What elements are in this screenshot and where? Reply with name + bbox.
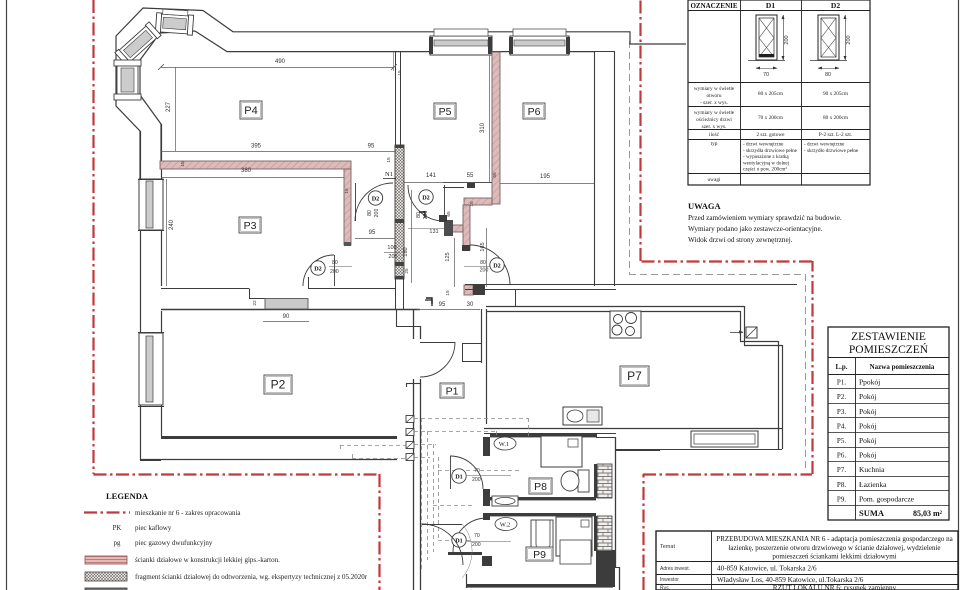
svg-text:22: 22 [252, 300, 258, 306]
room label P4 [240, 101, 262, 119]
svg-text:200: 200 [472, 542, 481, 548]
W2 label bubble [495, 518, 517, 531]
door symbol D2 [311, 261, 325, 275]
svg-text:LEGENDA: LEGENDA [106, 491, 149, 501]
svg-text:95: 95 [369, 230, 376, 236]
svg-text:80: 80 [416, 212, 422, 218]
dimension 195 [500, 183, 594, 185]
legend dark bar [85, 588, 127, 590]
door arc P3 lower (D2) [303, 255, 334, 286]
svg-text:90: 90 [283, 314, 290, 320]
door symbol D1 [452, 533, 466, 547]
svg-text:wymiary w świetle: wymiary w świetle [694, 110, 735, 116]
svg-text:P6.: P6. [837, 452, 846, 460]
door arc hall/P8 (D1) [450, 456, 483, 489]
room label P3 [239, 217, 261, 233]
sink P7 [563, 407, 602, 425]
wall stub x515 [515, 289, 517, 306]
svg-text:POMIESZCZEŃ: POMIESZCZEŃ [849, 342, 929, 356]
door arc P4/P3 (D2) [355, 183, 393, 221]
room label P2 [264, 375, 292, 394]
svg-text:65: 65 [446, 211, 452, 217]
bay outer wall [116, 8, 203, 179]
svg-text:490: 490 [275, 59, 286, 65]
svg-text:P9: P9 [533, 549, 546, 561]
svg-text:15: 15 [180, 161, 186, 167]
P8 bottom wall [490, 497, 596, 500]
svg-text:125: 125 [445, 252, 451, 261]
svg-text:D2: D2 [422, 194, 430, 201]
svg-text:195: 195 [540, 174, 551, 180]
wall fragment to rebuild (90) [265, 299, 308, 310]
svg-text:ścianki działowe w konstrukcji: ścianki działowe w konstrukcji lekkiej g… [135, 556, 280, 564]
svg-text:D2: D2 [372, 195, 380, 202]
svg-text:P9.: P9. [837, 495, 846, 503]
svg-text:P1: P1 [446, 385, 459, 397]
pink partition wall P3 vertical [344, 169, 351, 245]
door D1 diagram [756, 15, 777, 60]
svg-text:L.p.: L.p. [835, 363, 847, 371]
svg-text:SUMA: SUMA [859, 508, 885, 518]
svg-text:łazienkę, poszerzenie otworu d: łazienkę, poszerzenie otworu drzwiowego … [728, 544, 940, 552]
svg-text:25: 25 [404, 268, 409, 274]
P6 right wall [594, 51, 596, 286]
kitchen balcony sill [615, 449, 782, 451]
door symbol D2 [490, 258, 504, 272]
marker A lower [426, 298, 432, 304]
svg-text:200: 200 [480, 268, 489, 274]
P8 top wall [490, 434, 597, 437]
red dash-dot scope boundary [92, 0, 94, 474]
door D2 diagram [818, 15, 839, 60]
shower P8 [541, 436, 582, 467]
svg-text:P2.: P2. [837, 393, 846, 401]
dimension 141 55 [404, 182, 492, 184]
svg-text:200: 200 [784, 35, 790, 44]
svg-text:15: 15 [445, 290, 451, 296]
svg-text:180: 180 [403, 247, 409, 256]
window top P5 [430, 36, 492, 55]
svg-text:55: 55 [492, 172, 498, 178]
svg-text:70: 70 [474, 468, 480, 474]
dimension 227 vertical [175, 67, 177, 151]
svg-text:15: 15 [344, 188, 350, 194]
svg-text:15: 15 [397, 70, 403, 76]
door symbol D2 [368, 191, 382, 205]
pink partition wall P3/P4 horizontal [160, 161, 351, 169]
svg-text:Pokój: Pokój [859, 436, 877, 445]
svg-text:RZUT LOKALU NR 6; rysunek zami: RZUT LOKALU NR 6; rysunek zamienny [773, 584, 897, 590]
svg-text:Rys.: Rys. [660, 586, 670, 590]
pink partition wall P5/P6 vertical [492, 52, 500, 204]
svg-text:mieszkanie nr 6 - zakres oprac: mieszkanie nr 6 - zakres opracowania [135, 509, 241, 517]
pink jog wall T-cap (dark) [444, 220, 453, 236]
svg-text:wentylacyjną w dolnej: wentylacyjną w dolnej [743, 160, 789, 166]
svg-text:pomieszczeń ściankami lekkimi: pomieszczeń ściankami lekkimi działowymi [772, 553, 896, 561]
P9 bottom wall [466, 584, 613, 588]
dimension 95 (door P3) [355, 238, 395, 240]
svg-text:40-859 Katowice, ul. Tokarska: 40-859 Katowice, ul. Tokarska 2/6 [717, 565, 817, 573]
svg-text:P6: P6 [528, 106, 541, 118]
svg-text:Pokój: Pokój [859, 392, 877, 401]
dimension 490 [161, 67, 394, 69]
svg-text:Pokój: Pokój [859, 451, 877, 460]
svg-text:Nazwa pomieszczenia: Nazwa pomieszczenia [870, 363, 935, 371]
vent square with arrow P7 [746, 327, 757, 338]
svg-text:Kuchnia: Kuchnia [859, 465, 885, 474]
dimension 95 30 hall [417, 309, 480, 311]
door arc P2/P1 [420, 342, 455, 377]
svg-text:70: 70 [474, 533, 480, 539]
rooms table ZESTAWIENIE [828, 327, 949, 520]
bay window diagonal [115, 22, 161, 66]
svg-text:30: 30 [467, 302, 474, 308]
svg-text:80 x 205cm: 80 x 205cm [758, 91, 784, 97]
svg-text:80: 80 [825, 72, 831, 78]
pink jog wall small band [445, 225, 463, 232]
svg-text:200: 200 [472, 477, 481, 483]
svg-text:90 x 205cm: 90 x 205cm [823, 91, 849, 97]
svg-text:otworu: otworu [706, 93, 721, 99]
svg-text:Przed zamówieniem wymiary spra: Przed zamówieniem wymiary sprawdzić na b… [688, 214, 842, 222]
wall between P4 and P5 [395, 51, 397, 145]
svg-text:W.2: W.2 [500, 522, 510, 529]
svg-text:15: 15 [469, 201, 475, 207]
bay inner wall [140, 31, 195, 161]
svg-text:Ppokój: Ppokój [859, 378, 880, 387]
toilet P8 [578, 470, 589, 492]
door symbol D2 [419, 190, 433, 204]
door arc corridor/P5 (D2) [408, 185, 444, 221]
P9 left wall [483, 513, 490, 520]
svg-text:Łazienka: Łazienka [859, 480, 887, 489]
kitchen bottom wall [484, 428, 782, 430]
dimension 380 [161, 177, 344, 179]
room label P5 [434, 103, 456, 119]
wall P3/P2 lower line [161, 309, 420, 311]
svg-text:100: 100 [387, 245, 396, 251]
svg-text:wymiary w świetle: wymiary w świetle [694, 86, 735, 92]
brick pier P9 [597, 516, 612, 551]
window P2 left wall [139, 333, 163, 405]
svg-text:- skrzydło drzwiowe pełne: - skrzydło drzwiowe pełne [804, 148, 859, 154]
svg-text:D1: D1 [455, 473, 463, 480]
svg-text:piec kaflowy: piec kaflowy [135, 524, 172, 532]
page right border [958, 0, 960, 590]
svg-text:205: 205 [388, 254, 397, 260]
pink niche piece near P1 [464, 285, 473, 295]
svg-text:227: 227 [166, 101, 172, 112]
door leaf cap corridor [439, 215, 447, 222]
svg-text:200: 200 [846, 35, 852, 44]
svg-text:131: 131 [429, 229, 438, 235]
dimension 165 vertical [486, 228, 488, 287]
svg-text:PRZEBUDOWA MIESZKANIA NR 6 - a: PRZEBUDOWA MIESZKANIA NR 6 - adaptacja p… [716, 535, 953, 543]
door arc corridor/P6 (D2) [470, 245, 510, 285]
svg-text:typ: typ [711, 141, 718, 147]
dimension 240 vertical [166, 179, 168, 286]
small bench P9 [560, 540, 591, 564]
svg-text:95: 95 [368, 144, 375, 150]
legend pink bar [85, 556, 127, 564]
legend red line sample [84, 511, 130, 513]
kitchen top wall [486, 306, 744, 308]
svg-text:P1.: P1. [837, 379, 846, 387]
svg-text:95: 95 [439, 302, 446, 308]
dimension 180 vertical [411, 190, 413, 283]
marker A corridor [419, 212, 425, 218]
svg-text:80: 80 [367, 210, 373, 216]
P9 top wall [490, 513, 596, 516]
window P3 left wall [139, 179, 163, 230]
svg-text:fragment ścianki działowej do: fragment ścianki działowej do odtworzeni… [135, 573, 368, 581]
svg-text:D2: D2 [314, 265, 322, 272]
svg-text:pg: pg [114, 540, 121, 547]
black cap pink horizontal end [467, 182, 475, 188]
dimension 131 [408, 228, 444, 230]
room label P1 [440, 383, 464, 398]
door schedule table [688, 0, 870, 185]
svg-text:ilość: ilość [709, 132, 720, 138]
kitchen radiator/window [691, 431, 758, 447]
svg-text:P3: P3 [244, 220, 257, 232]
basin P9 [531, 520, 553, 558]
svg-text:70: 70 [763, 72, 769, 78]
svg-text:P5.: P5. [837, 437, 846, 445]
room label P8 [529, 478, 552, 494]
svg-text:55: 55 [467, 173, 474, 179]
dimension 395 / 95 [161, 151, 396, 153]
svg-text:Temat: Temat [660, 544, 675, 550]
pink jog wall vertical [463, 205, 470, 250]
door arc hall entry [422, 524, 463, 565]
wall below P5 P6 [465, 284, 797, 286]
neighbour walls dashed [629, 41, 631, 274]
svg-text:- skrzydła drzwiowe pełne: - skrzydła drzwiowe pełne [743, 148, 798, 154]
P5 bottom wall [443, 182, 492, 184]
svg-text:P-2 szt. L-2 szt.: P-2 szt. L-2 szt. [819, 132, 852, 138]
svg-text:Widok drzwi od strony zewnętrz: Widok drzwi od strony zewnętrznej. [688, 236, 793, 244]
svg-text:- wyposażone z kratką: - wyposażone z kratką [743, 154, 789, 160]
pink jog wall horizontal [464, 198, 492, 205]
svg-text:P8.: P8. [837, 481, 846, 489]
P2 right wall / hall left wall [413, 309, 415, 339]
svg-text:ZESTAWIENIE: ZESTAWIENIE [851, 331, 926, 343]
svg-text:2 szt. gotowe: 2 szt. gotowe [756, 132, 785, 138]
room label P9 [526, 547, 553, 561]
riser squares [406, 416, 414, 423]
P8 washbasin niche [492, 496, 518, 506]
legend hatch bar [85, 572, 127, 581]
svg-text:240: 240 [169, 219, 175, 230]
svg-text:P4.: P4. [837, 422, 846, 430]
svg-text:części o pow. 200cm²: części o pow. 200cm² [743, 167, 787, 173]
room label P6 [523, 103, 545, 119]
svg-text:Pom. gospodarcze: Pom. gospodarcze [859, 494, 915, 503]
svg-text:- drzwi wewnętrzne: - drzwi wewnętrzne [743, 142, 784, 148]
P9 right lower wall [596, 550, 615, 587]
dimension 90 / 22 [263, 321, 309, 323]
washer P9 [556, 517, 592, 556]
P8 left wall [483, 437, 490, 456]
svg-text:Pokój: Pokój [859, 421, 877, 430]
svg-text:P5: P5 [439, 106, 452, 118]
svg-text:D1: D1 [766, 1, 775, 10]
P2 bottom wall [161, 436, 397, 439]
marker arrow hall [425, 300, 432, 306]
svg-text:OZNACZENIE: OZNACZENIE [690, 2, 737, 10]
page left border [6, 0, 8, 590]
svg-text:Pokój: Pokój [859, 407, 877, 416]
bay window left [114, 60, 141, 100]
svg-text:- szer. x wys.: - szer. x wys. [700, 100, 728, 106]
window top P6 [510, 36, 569, 55]
svg-text:D2: D2 [493, 262, 501, 269]
svg-text:piec gazowy dwufunkcyjny: piec gazowy dwufunkcyjny [135, 539, 213, 547]
svg-text:W.1: W.1 [499, 441, 509, 448]
dashed installation pipes [414, 418, 528, 420]
brick pier P8 [597, 464, 612, 498]
svg-text:PK: PK [113, 525, 122, 532]
svg-text:UWAGA: UWAGA [688, 201, 721, 211]
svg-text:200: 200 [330, 269, 339, 275]
svg-text:Adres inwest.: Adres inwest. [660, 566, 690, 572]
svg-text:200: 200 [374, 209, 380, 218]
svg-text:85,03 m²: 85,03 m² [913, 509, 943, 518]
svg-text:80: 80 [332, 260, 338, 266]
bay window top [155, 9, 194, 36]
W1 label bubble [494, 437, 516, 450]
svg-text:380: 380 [241, 168, 252, 174]
svg-text:uwagi: uwagi [708, 177, 721, 183]
exterior top wall outer line [203, 11, 686, 45]
svg-text:- drzwi wewnętrzne: - drzwi wewnętrzne [804, 142, 845, 148]
svg-text:70 x 200cm: 70 x 200cm [758, 115, 784, 121]
kitchen right wall [778, 341, 780, 449]
svg-text:P7: P7 [627, 369, 642, 383]
svg-text:N1: N1 [385, 171, 393, 178]
svg-text:szer. x wys.: szer. x wys. [702, 124, 727, 130]
door symbol D1 [452, 469, 466, 483]
svg-text:15: 15 [386, 157, 392, 163]
svg-text:80 x 200cm: 80 x 200cm [823, 115, 849, 121]
stove P7 [610, 311, 641, 338]
title block [656, 531, 958, 590]
svg-text:80: 80 [480, 260, 486, 266]
dimension 125 vertical [454, 238, 456, 287]
left exterior wall [140, 131, 142, 460]
exterior top wall inner line [195, 31, 594, 52]
right wall x615 [615, 437, 617, 567]
svg-text:D2: D2 [831, 1, 840, 10]
svg-text:P8: P8 [534, 481, 547, 493]
svg-text:165: 165 [480, 242, 486, 251]
svg-text:P4: P4 [244, 105, 257, 117]
svg-text:P3.: P3. [837, 408, 846, 416]
black cap pink vertical bottom [462, 245, 470, 251]
room label P7 [620, 366, 649, 386]
svg-text:Wymiary podano jako zestawcze-: Wymiary podano jako zestawcze-orientacyj… [688, 225, 823, 233]
svg-text:P2: P2 [271, 377, 286, 391]
wall P3/P2 upper line [161, 288, 249, 290]
door arc hall/P9 (D1) [453, 518, 487, 552]
svg-text:Władysław Los, 40-859 Katowic: Władysław Los, 40-859 Katowice, ul.Tokar… [717, 576, 864, 584]
dimension 310 vertical [489, 55, 491, 182]
hatched wall N1 [395, 145, 404, 279]
svg-text:310: 310 [480, 122, 486, 133]
svg-text:D1: D1 [455, 537, 463, 544]
kitchen left wall [481, 309, 483, 363]
svg-text:Inwestor: Inwestor [660, 577, 679, 583]
svg-text:395: 395 [251, 144, 262, 150]
corridor wall below N1 [395, 279, 397, 309]
svg-text:ościeżnicy drzwi: ościeżnicy drzwi [696, 117, 732, 123]
svg-text:141: 141 [426, 173, 437, 179]
svg-text:P7.: P7. [837, 466, 846, 474]
